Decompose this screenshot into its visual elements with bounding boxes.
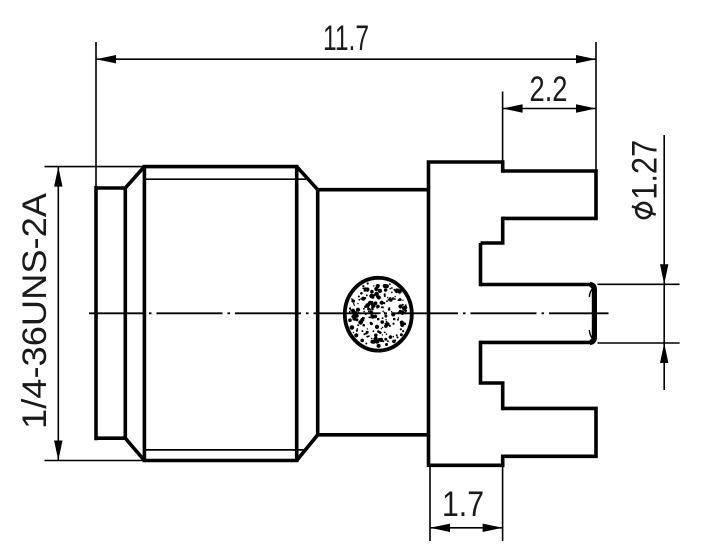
front ring (thread pilot) bbox=[96, 186, 125, 440]
dim phi1.27 extension lines bbox=[598, 284, 680, 343]
dim 1.7 extension lines bbox=[430, 458, 503, 541]
thread callout arrowheads bbox=[54, 167, 62, 461]
center pin bbox=[481, 285, 591, 343]
thread callout extension lines bbox=[45, 167, 145, 461]
dim 1.7 arrowheads bbox=[430, 524, 503, 532]
svg-text:1.7: 1.7 bbox=[442, 485, 484, 524]
dim 11.7 arrowheads bbox=[96, 55, 596, 63]
label phi 1.27 (rotated) bbox=[626, 140, 665, 218]
dim 2.2 extension line bbox=[502, 92, 504, 172]
pin end cap bar bbox=[590, 285, 595, 343]
svg-text:2.2: 2.2 bbox=[530, 70, 568, 109]
diameter symbol bbox=[636, 203, 651, 218]
threaded barrel body (1/4-36UNS-2A) bbox=[144, 165, 296, 463]
dim 11.7 extension lines bbox=[96, 42, 596, 186]
bottom leg bbox=[503, 407, 596, 459]
thread minor-diameter lines bbox=[144, 179, 306, 450]
neck between barrel and flange bbox=[318, 190, 429, 435]
dim phi1.27 dimension line bbox=[663, 135, 665, 390]
insulator circle (stippled section) bbox=[345, 278, 412, 351]
flange plate bbox=[429, 160, 503, 467]
svg-text:1/4-36UNS-2A: 1/4-36UNS-2A bbox=[16, 193, 54, 429]
label 1/4-36UNS-2A (rotated) bbox=[16, 193, 54, 429]
centerline (horizontal dash-dot axis) bbox=[89, 312, 609, 314]
dim phi1.27 arrowheads bbox=[660, 264, 668, 363]
pin tip inner corner arcs bbox=[589, 289, 592, 339]
svg-text:11.7: 11.7 bbox=[323, 19, 369, 58]
svg-text:1.27: 1.27 bbox=[626, 140, 665, 200]
stipple dots inside insulator bbox=[348, 282, 407, 348]
barrel chamfer diagonals bbox=[125, 167, 317, 461]
thread callout dimension line bbox=[57, 167, 59, 461]
dim 1.7 dimension line bbox=[430, 527, 503, 529]
dim 2.2 dimension line bbox=[503, 108, 596, 110]
dim 11.7 dimension line bbox=[96, 58, 596, 60]
dim 2.2 arrowheads bbox=[503, 104, 596, 112]
top leg bbox=[503, 169, 596, 220]
